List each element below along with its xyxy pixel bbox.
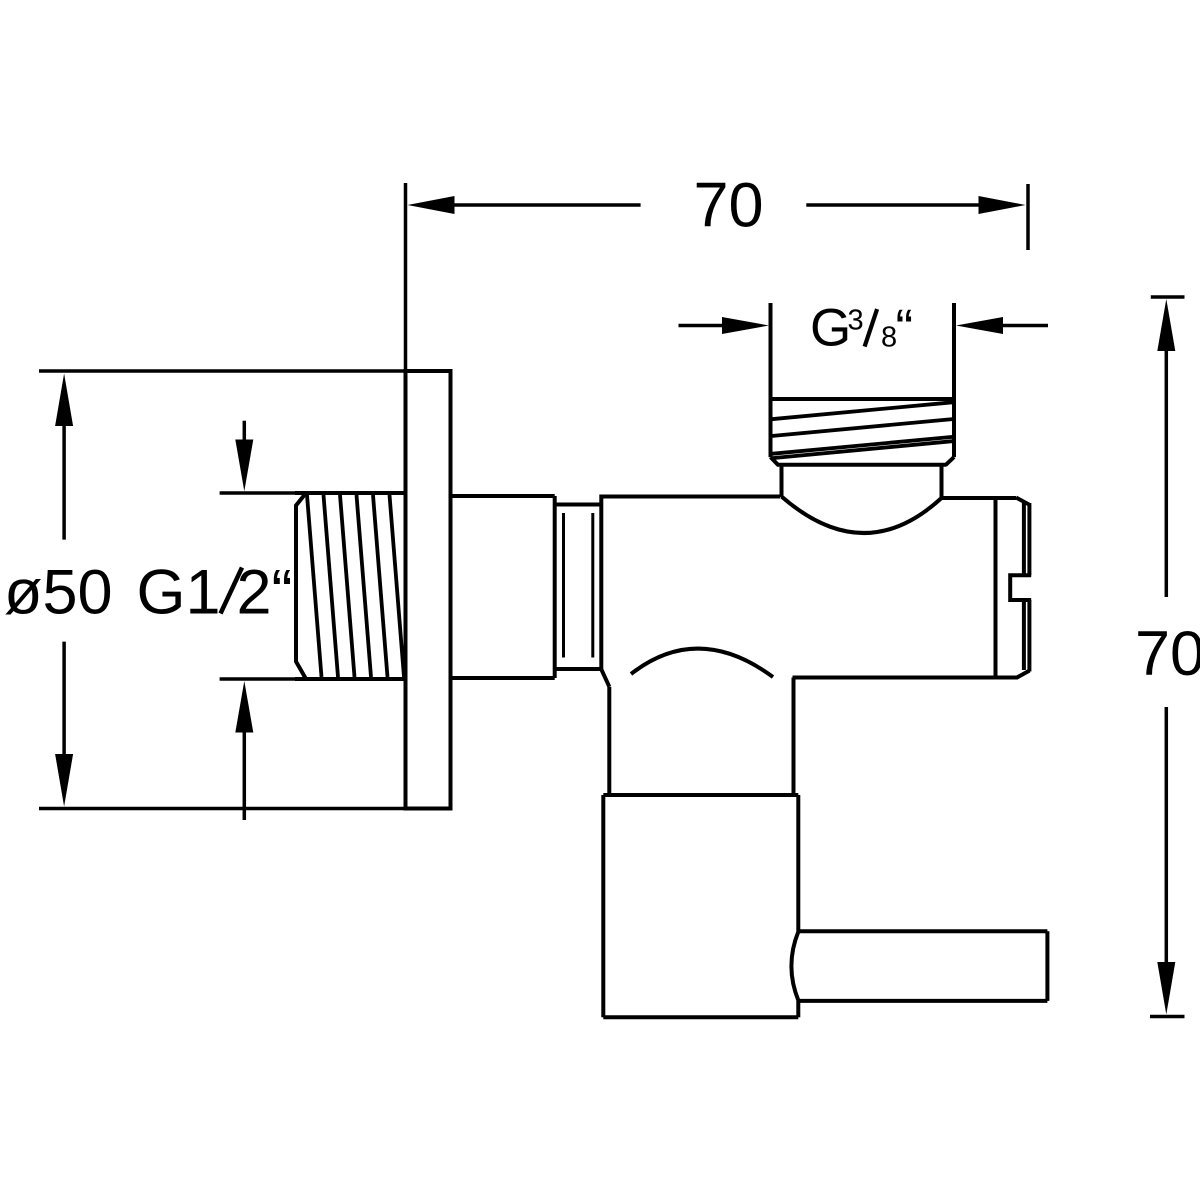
svg-text:“: “ bbox=[896, 299, 914, 358]
dimension 70 top: dimension line bbox=[408, 196, 1026, 214]
threaded pipe G1/2: thread hatch bbox=[307, 495, 404, 677]
down neck bbox=[609, 678, 793, 798]
svg-text:3: 3 bbox=[848, 305, 864, 337]
dimension o50: extension line top bbox=[39, 369, 406, 373]
dimension 70 right: tick top bbox=[1151, 295, 1185, 299]
dimension G3/8: arrows bbox=[679, 317, 1049, 334]
handle lever bbox=[791, 931, 1047, 1001]
valve body bbox=[601, 495, 1018, 687]
dimension G1/2: label bbox=[137, 557, 293, 627]
dimension G3/8: label bbox=[810, 299, 913, 359]
wall plate bbox=[406, 371, 451, 809]
svg-text:2“: 2“ bbox=[237, 557, 293, 627]
threaded pipe G1/2: outline bbox=[295, 493, 406, 679]
dimension G1/2: arrows bbox=[235, 421, 253, 820]
connector pipe bbox=[451, 496, 555, 678]
groove ring bbox=[555, 505, 602, 670]
threaded collar G3/8 bbox=[769, 399, 957, 465]
svg-text:70: 70 bbox=[694, 171, 764, 241]
inlet pipe G3/8 bbox=[771, 303, 955, 457]
svg-text:G1: G1 bbox=[137, 557, 221, 627]
dimension o50: arrows bbox=[55, 374, 73, 807]
dimension 70 right: arrows bbox=[1157, 299, 1175, 1015]
collar neck bbox=[782, 465, 942, 499]
valve body arc bbox=[631, 649, 773, 677]
threaded pipe G1/2: extension segments bbox=[220, 491, 300, 495]
svg-text:70: 70 bbox=[1135, 619, 1200, 689]
dimension 70 top: extension line left bbox=[404, 183, 408, 371]
dimension 70 top: extension line right bbox=[1026, 184, 1030, 250]
dimension 70 right: tick bottom bbox=[1150, 1015, 1185, 1019]
lower cylinder bbox=[603, 795, 798, 1017]
end cap with slot bbox=[1010, 498, 1031, 678]
svg-text:ø50: ø50 bbox=[4, 557, 113, 627]
collar dome bbox=[782, 497, 942, 534]
svg-text:G: G bbox=[810, 299, 851, 358]
dimension o50: extension line bottom bbox=[39, 807, 406, 811]
